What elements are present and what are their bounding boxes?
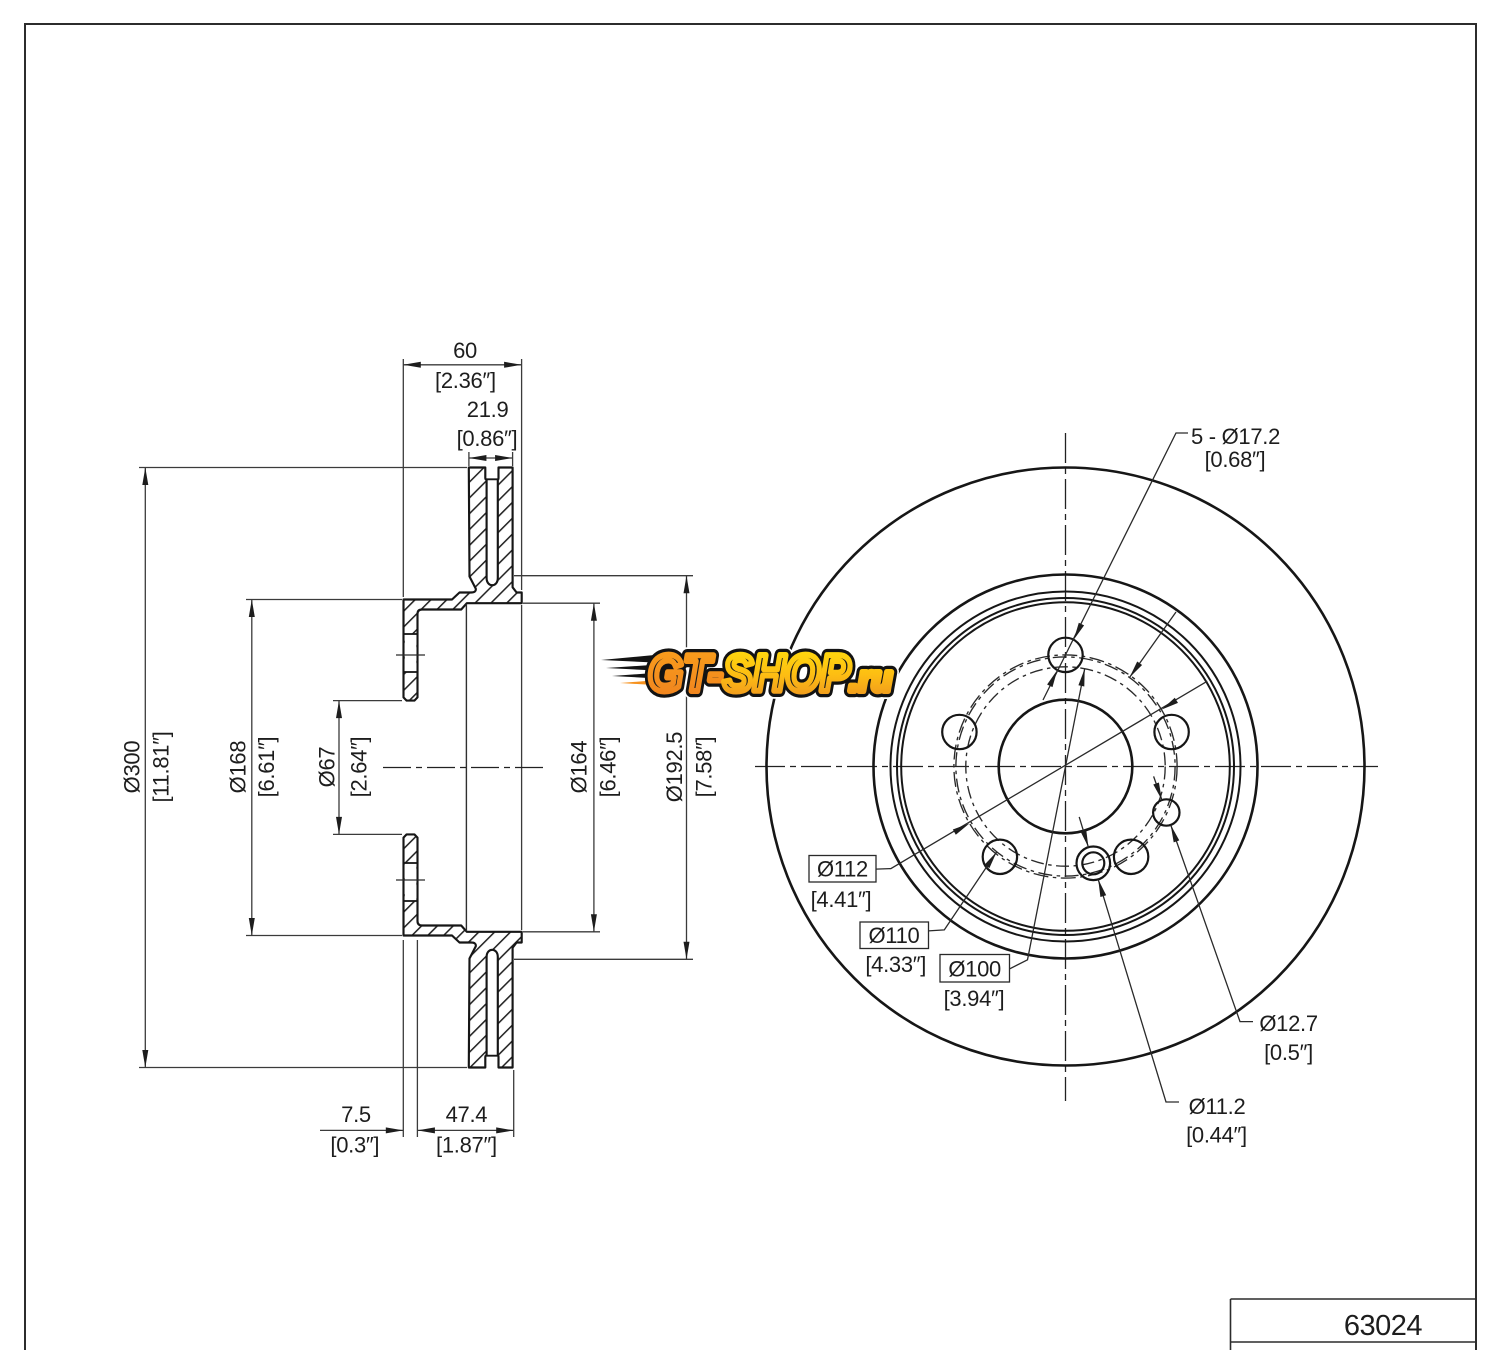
dimension line diameter 300 bbox=[144, 468, 146, 1068]
svg-text:[7.58″]: [7.58″] bbox=[691, 737, 716, 798]
extension lines diameter 192.5 bbox=[514, 575, 693, 577]
front view crosshair vertical centerline bbox=[1065, 433, 1067, 1101]
brake disc section upper half (hatched) bbox=[404, 468, 522, 701]
svg-text:Ø164: Ø164 bbox=[566, 741, 591, 794]
svg-text:.ru: .ru bbox=[849, 658, 892, 699]
set screw hole inner diameter 11.2 bbox=[1082, 852, 1104, 874]
leader diameter 100 bbox=[1010, 669, 1085, 969]
section centerline bbox=[383, 767, 543, 769]
dimension line 47.4 bbox=[417, 1129, 513, 1131]
svg-text:Ø300: Ø300 bbox=[120, 741, 145, 794]
svg-text:[2.64″]: [2.64″] bbox=[347, 737, 372, 798]
center hole diameter 67 bbox=[999, 700, 1133, 834]
extension lines diameter 164 bbox=[523, 602, 600, 604]
extension lines diameter 168 bbox=[246, 599, 402, 601]
svg-text:GT-: GT- bbox=[648, 645, 723, 703]
set screw hole outer bbox=[1077, 847, 1111, 881]
dimension line diameter 168 bbox=[251, 600, 253, 936]
svg-text:Ø168: Ø168 bbox=[226, 741, 251, 794]
svg-text:Ø12.7: Ø12.7 bbox=[1259, 1011, 1317, 1036]
svg-text:60: 60 bbox=[453, 338, 477, 363]
extension lines 21.9 bbox=[468, 452, 470, 466]
outer circle diameter 300 bbox=[767, 468, 1365, 1066]
svg-text:Ø112: Ø112 bbox=[817, 857, 868, 882]
dimension line 7.5 bbox=[320, 1129, 403, 1131]
arrowheads section dims bbox=[403, 362, 421, 368]
svg-text:Ø67: Ø67 bbox=[315, 747, 340, 788]
vent slot mouth shoulder lines bbox=[485, 478, 498, 480]
svg-text:[6.46″]: [6.46″] bbox=[595, 737, 620, 798]
dimension line diameter 192.5 bbox=[686, 576, 688, 960]
lug bolt hole 4 diameter 17.2 bbox=[1114, 840, 1148, 874]
bolt circle diameter 112 dash-dot bbox=[954, 655, 1177, 878]
svg-text:Ø11.2: Ø11.2 bbox=[1189, 1094, 1246, 1119]
circle diameter 164 (hat bore) bbox=[901, 602, 1230, 931]
circle diameter 100 dash-dot bbox=[966, 667, 1165, 866]
extension lines diameter 67 bbox=[333, 700, 402, 702]
svg-text:[0.44″]: [0.44″] bbox=[1186, 1123, 1247, 1148]
svg-text:[0.68″]: [0.68″] bbox=[1205, 447, 1266, 472]
svg-text:7.5: 7.5 bbox=[341, 1102, 371, 1127]
leader diameter 110 upper bbox=[1130, 612, 1177, 678]
svg-text:5 - Ø17.2: 5 - Ø17.2 bbox=[1191, 424, 1280, 449]
hat interior step edge bbox=[465, 604, 467, 931]
brake disc section lower half (hatched) bbox=[404, 834, 522, 1067]
svg-text:[6.61″]: [6.61″] bbox=[254, 737, 279, 798]
dimension line 60 bbox=[403, 364, 521, 366]
svg-text:[4.41″]: [4.41″] bbox=[811, 887, 872, 912]
svg-text:Ø110: Ø110 bbox=[869, 923, 920, 948]
svg-text:[0.3″]: [0.3″] bbox=[330, 1133, 379, 1158]
lug bolt hole 3 diameter 17.2 bbox=[983, 840, 1017, 874]
svg-text:[11.81″]: [11.81″] bbox=[149, 731, 174, 802]
svg-text:[3.94″]: [3.94″] bbox=[944, 986, 1005, 1011]
leader diameter 11.2 bbox=[1098, 879, 1179, 1102]
circle diameter 168 (flange) bbox=[897, 598, 1234, 935]
svg-text:SHOP: SHOP bbox=[723, 645, 850, 703]
svg-text:Ø192.5: Ø192.5 bbox=[662, 732, 687, 802]
dimension line diameter 164 bbox=[593, 603, 595, 932]
svg-text:63024: 63024 bbox=[1344, 1310, 1423, 1342]
svg-text:[0.86″]: [0.86″] bbox=[457, 426, 518, 451]
circle diameter 175 bbox=[891, 592, 1241, 942]
logo speed line orange bbox=[620, 679, 671, 686]
lug bolt hole 2 diameter 17.2 bbox=[942, 715, 976, 749]
lug bolt hole 1 diameter 17.2 bbox=[1048, 638, 1082, 672]
extension lines diameter 300 bbox=[139, 467, 467, 469]
boxed label diameter 110 bbox=[860, 922, 929, 949]
svg-text:[1.87″]: [1.87″] bbox=[436, 1133, 497, 1158]
flange bolt-hole window (mirror) bbox=[405, 863, 417, 901]
flange bolt-hole window bbox=[405, 634, 417, 672]
extension line 60 left bbox=[402, 359, 404, 597]
svg-text:[4.33″]: [4.33″] bbox=[865, 952, 926, 977]
title block bbox=[1231, 1299, 1476, 1350]
gt-shop.ru watermark logo bbox=[601, 645, 892, 703]
leader 5x17.2 holes bbox=[1043, 433, 1188, 700]
front view crosshair horizontal centerline bbox=[755, 766, 1378, 768]
svg-text:[2.36″]: [2.36″] bbox=[435, 368, 496, 393]
circle diameter 110 dash-dot bbox=[956, 657, 1175, 876]
leader diameter 12.7 bbox=[1171, 825, 1253, 1022]
boxed label diameter 112 bbox=[809, 856, 876, 883]
extension line 60 right / hat end bbox=[521, 359, 523, 590]
boxed label diameter 100 bbox=[940, 955, 1010, 983]
leader diameter 112 bbox=[876, 681, 1208, 869]
dimension line diameter 67 bbox=[338, 701, 340, 835]
svg-text:[0.5″]: [0.5″] bbox=[1264, 1040, 1313, 1065]
logo speed lines bbox=[601, 654, 665, 663]
dimension line 21.9 bbox=[469, 457, 513, 459]
extension lines 7.5 / 47.4 bbox=[402, 940, 404, 1137]
leader diameter 110 lower bbox=[929, 852, 997, 931]
alignment hole diameter 12.7 bbox=[1153, 799, 1179, 825]
friction band inner circle diameter 192.5 bbox=[874, 575, 1258, 959]
svg-text:21.9: 21.9 bbox=[467, 397, 509, 422]
svg-text:Ø100: Ø100 bbox=[948, 957, 1001, 982]
lug bolt hole 5 diameter 17.2 bbox=[1154, 715, 1188, 749]
svg-text:47.4: 47.4 bbox=[446, 1102, 488, 1127]
